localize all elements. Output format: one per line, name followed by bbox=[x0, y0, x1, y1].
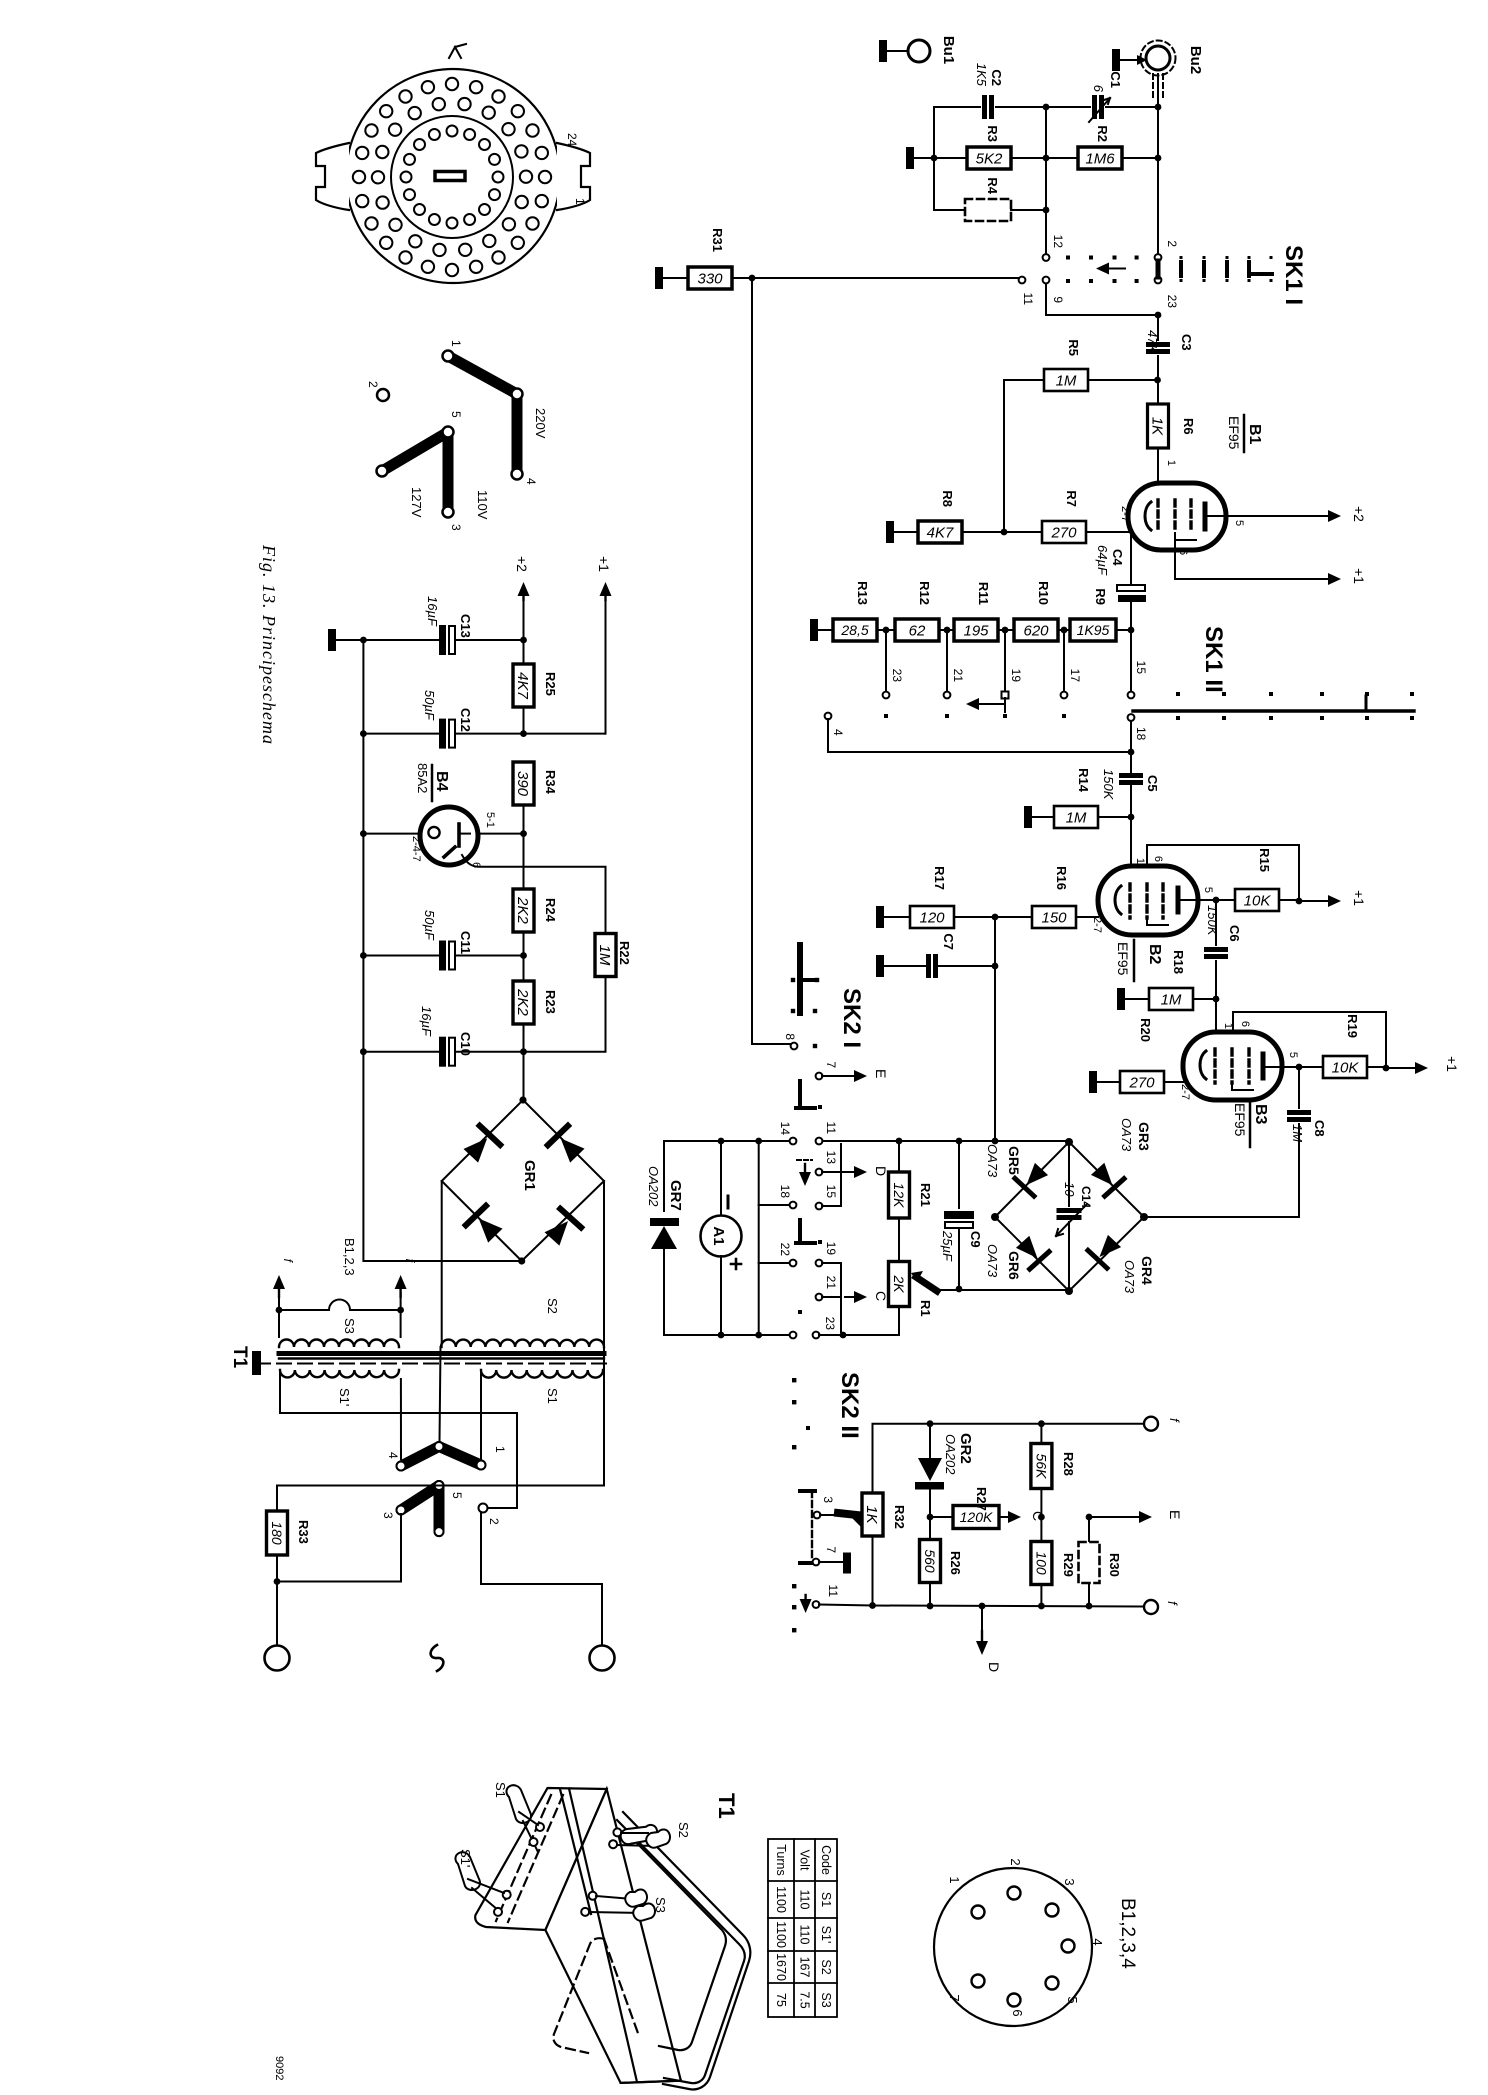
svg-text:7.5: 7.5 bbox=[798, 1991, 812, 2008]
svg-text:C3: C3 bbox=[1179, 334, 1194, 351]
svg-text:23: 23 bbox=[890, 669, 904, 683]
svg-text:D: D bbox=[873, 1166, 889, 1176]
GR1 diode lower-left bbox=[466, 1206, 506, 1246]
svg-text:4K7: 4K7 bbox=[514, 672, 531, 699]
svg-text:127V: 127V bbox=[409, 487, 424, 518]
GR1 diode upper-left bbox=[461, 1126, 501, 1166]
svg-text:GR6: GR6 bbox=[1006, 1251, 1022, 1280]
svg-text:S1: S1 bbox=[545, 1388, 560, 1404]
resistor R12 62 bbox=[895, 619, 939, 641]
resistor R13 28.5 bbox=[833, 619, 877, 641]
svg-text:+2: +2 bbox=[1351, 506, 1367, 522]
resistor R34 390 bbox=[513, 762, 534, 805]
diode GR2 OA202 bbox=[929, 1424, 931, 1458]
svg-text:11: 11 bbox=[824, 1122, 838, 1135]
capacitor C10 16uF bbox=[363, 956, 440, 1052]
svg-text:S1': S1' bbox=[337, 1388, 352, 1406]
svg-text:2-7: 2-7 bbox=[1179, 1084, 1191, 1100]
svg-text:1M: 1M bbox=[1056, 372, 1077, 389]
svg-text:1K95: 1K95 bbox=[1077, 622, 1110, 638]
svg-text:5: 5 bbox=[1287, 1052, 1299, 1058]
svg-text:B3: B3 bbox=[1252, 1104, 1269, 1125]
winding data table bbox=[768, 1839, 837, 2017]
svg-text:6: 6 bbox=[1177, 549, 1189, 555]
SK2I pin 7 arrow E bbox=[816, 1073, 823, 1080]
svg-text:4: 4 bbox=[386, 1452, 400, 1459]
svg-text:GR7: GR7 bbox=[667, 1180, 684, 1211]
svg-text:EF95: EF95 bbox=[1232, 1103, 1248, 1137]
svg-text:OA202: OA202 bbox=[646, 1166, 661, 1207]
svg-text:S1: S1 bbox=[493, 1782, 508, 1798]
svg-text:C5: C5 bbox=[1145, 775, 1160, 792]
link 5-127V/110V bbox=[382, 432, 448, 471]
svg-text:B1,2,3: B1,2,3 bbox=[342, 1238, 357, 1276]
T1 lead S2 bbox=[609, 1821, 670, 1848]
svg-text:195: 195 bbox=[963, 622, 989, 639]
svg-text:GR3: GR3 bbox=[1136, 1122, 1152, 1151]
svg-text:19: 19 bbox=[1009, 669, 1023, 683]
wire Bu2 to SK1I pin 2 (dashed sleeve) bbox=[1152, 74, 1154, 100]
SK2I pins 14 / 11 bbox=[755, 1138, 762, 1145]
arrow C bbox=[999, 1516, 1003, 1518]
svg-text:C14: C14 bbox=[1079, 1186, 1093, 1208]
svg-text:1M6: 1M6 bbox=[1085, 150, 1115, 167]
svg-text:120: 120 bbox=[919, 909, 945, 926]
svg-text:SK1 II: SK1 II bbox=[1200, 626, 1227, 693]
svg-text:S2: S2 bbox=[819, 1959, 833, 1974]
svg-text:R27: R27 bbox=[974, 1487, 989, 1511]
mains terminal left bbox=[265, 1646, 290, 1671]
svg-text:R30: R30 bbox=[1107, 1553, 1122, 1577]
resistor R4 (dashed) bbox=[933, 107, 935, 210]
svg-text:C: C bbox=[873, 1291, 889, 1301]
svg-text:1K: 1K bbox=[1149, 417, 1166, 436]
svg-text:EF95: EF95 bbox=[1226, 416, 1242, 450]
svg-text:1: 1 bbox=[947, 1876, 962, 1883]
wire S2 left to GR1 left vertex bbox=[441, 1181, 443, 1347]
socket Bu1 bbox=[879, 40, 887, 62]
mains terminal right bbox=[590, 1646, 615, 1671]
svg-text:R18: R18 bbox=[1171, 950, 1186, 974]
heater supply arrows f f (B1,2,3) bbox=[278, 1286, 280, 1297]
svg-text:10K: 10K bbox=[1332, 1059, 1360, 1076]
svg-text:R9: R9 bbox=[1093, 588, 1108, 605]
anode wire pin5 bbox=[1266, 1066, 1323, 1068]
svg-text:E: E bbox=[873, 1069, 889, 1078]
svg-text:390: 390 bbox=[514, 771, 531, 797]
svg-text:S3: S3 bbox=[653, 1897, 668, 1913]
svg-text:5: 5 bbox=[1202, 887, 1214, 893]
resistor R21 12K bbox=[898, 1141, 900, 1172]
svg-text:C13: C13 bbox=[458, 614, 473, 638]
svg-text:150K: 150K bbox=[1101, 769, 1116, 801]
svg-text:28,5: 28,5 bbox=[840, 622, 868, 638]
svg-text:R29: R29 bbox=[1061, 1553, 1076, 1577]
svg-text:Turns: Turns bbox=[774, 1844, 788, 1876]
svg-text:11: 11 bbox=[826, 1585, 840, 1598]
capacitor C2 1K5 bbox=[934, 106, 980, 108]
resistor R11 195 bbox=[954, 619, 998, 641]
diode GR4 OA73 bbox=[1088, 1232, 1124, 1268]
svg-text:1M: 1M bbox=[1290, 1124, 1305, 1142]
resistor R24 2K2 bbox=[523, 834, 525, 889]
svg-text:56K: 56K bbox=[1033, 1454, 1049, 1480]
svg-text:SK1 I: SK1 I bbox=[1280, 245, 1307, 305]
SK2I pin 23 bottom row bbox=[744, 1334, 790, 1336]
svg-text:T1: T1 bbox=[229, 1346, 250, 1369]
resistor R29 100 bbox=[1040, 1517, 1042, 1542]
svg-text:1: 1 bbox=[1165, 460, 1177, 466]
svg-text:1: 1 bbox=[493, 1446, 507, 1453]
SK1 II wiper arrow at pin 19 bbox=[1004, 698, 1006, 712]
svg-text:150: 150 bbox=[1041, 909, 1067, 926]
svg-text:1100: 1100 bbox=[774, 1921, 788, 1948]
svg-text:C7: C7 bbox=[941, 933, 956, 950]
resistor R15 10K bbox=[1235, 889, 1279, 911]
socket Bu2 bbox=[1112, 49, 1120, 71]
svg-text:110V: 110V bbox=[475, 490, 490, 520]
capacitor C9 25uF bbox=[958, 1141, 960, 1208]
svg-text:2K: 2K bbox=[891, 1274, 907, 1293]
SK1I contact dots bbox=[1066, 256, 1070, 260]
tube B2 EF95 bbox=[1098, 866, 1198, 935]
svg-text:6: 6 bbox=[1239, 1021, 1251, 1027]
SK2I pin 18 bbox=[759, 1141, 790, 1205]
wire wiper/C9 to bridge bottom bbox=[959, 1289, 1069, 1291]
svg-text:150K: 150K bbox=[1205, 905, 1220, 937]
svg-text:5: 5 bbox=[449, 411, 463, 418]
SK2I wiper bar bbox=[797, 945, 803, 1013]
svg-text:C2: C2 bbox=[989, 69, 1004, 86]
svg-text:6: 6 bbox=[1091, 85, 1106, 93]
svg-text:13: 13 bbox=[824, 1151, 838, 1165]
svg-text:6: 6 bbox=[1010, 2009, 1025, 2016]
svg-text:GR2: GR2 bbox=[957, 1433, 974, 1464]
potentiometer R32 1K bbox=[862, 1493, 883, 1536]
SK2I pin 21 arrow C bbox=[816, 1294, 823, 1301]
wire with bump between f arrows bbox=[279, 1300, 401, 1310]
svg-text:Bu2: Bu2 bbox=[1187, 46, 1204, 74]
svg-text:7: 7 bbox=[824, 1546, 838, 1553]
svg-text:S3: S3 bbox=[342, 1318, 357, 1334]
svg-text:4: 4 bbox=[1090, 1938, 1105, 1945]
capacitor C5 150K bbox=[1122, 773, 1141, 778]
svg-text:R11: R11 bbox=[976, 582, 991, 605]
resistor R14 1M bbox=[1024, 806, 1032, 828]
svg-text:OA73: OA73 bbox=[1119, 1118, 1134, 1152]
svg-text:1K: 1K bbox=[863, 1505, 880, 1524]
capacitor C8 1M bbox=[1298, 1067, 1300, 1108]
wire S1' right end to selector pin 4 bbox=[400, 1379, 402, 1459]
SK2I pin 15 bbox=[816, 1203, 823, 1210]
tube B1 EF95 bbox=[1128, 483, 1226, 550]
svg-text:OA73: OA73 bbox=[985, 1144, 1000, 1178]
svg-text:1M: 1M bbox=[596, 945, 613, 966]
svg-text:R25: R25 bbox=[543, 672, 558, 696]
anode wire pin5 to +2 bbox=[1208, 515, 1327, 517]
diode GR5 OA73 bbox=[1015, 1160, 1051, 1196]
svg-text:21: 21 bbox=[951, 669, 965, 683]
svg-text:R3: R3 bbox=[985, 125, 1000, 142]
mains voltage selector links 220V/127V/110V bbox=[366, 340, 548, 531]
capacitor C3 47K bbox=[1157, 315, 1159, 340]
svg-text:C6: C6 bbox=[1227, 925, 1242, 942]
svg-text:GR1: GR1 bbox=[521, 1160, 538, 1191]
svg-text:15: 15 bbox=[824, 1185, 838, 1199]
svg-text:24: 24 bbox=[565, 133, 579, 147]
resistor R18 1M bbox=[1117, 988, 1125, 1010]
arrow E bbox=[1089, 1516, 1128, 1518]
svg-text:1K5: 1K5 bbox=[974, 63, 989, 87]
svg-text:2: 2 bbox=[366, 381, 380, 388]
svg-text:R23: R23 bbox=[543, 990, 558, 1014]
svg-text:167: 167 bbox=[798, 1957, 812, 1978]
selector pin 2 bbox=[479, 1504, 488, 1513]
svg-text:16µF: 16µF bbox=[425, 596, 440, 627]
svg-text:47K: 47K bbox=[1145, 330, 1160, 354]
selector link 5-3 bbox=[401, 1486, 439, 1511]
capacitor C11 50uF bbox=[363, 834, 440, 956]
svg-text:21: 21 bbox=[824, 1276, 838, 1290]
column dashes between 18 and 22 bbox=[798, 1220, 802, 1240]
feedback wire pin6 over R19 bbox=[1233, 1012, 1386, 1067]
svg-text:GR4: GR4 bbox=[1139, 1256, 1155, 1285]
svg-text:110: 110 bbox=[798, 1925, 812, 1945]
svg-text:180: 180 bbox=[269, 1521, 285, 1545]
svg-text:R7: R7 bbox=[1064, 490, 1079, 507]
svg-text:19: 19 bbox=[824, 1242, 838, 1256]
resistor R3 5K2 bbox=[906, 147, 914, 169]
chain tap wires to SK1 II contacts bbox=[885, 630, 887, 691]
SK2 II pin 11 bbox=[813, 1601, 820, 1608]
resistor R27 120K bbox=[930, 1516, 953, 1518]
svg-text:10: 10 bbox=[1062, 1182, 1077, 1197]
wire B4 pin6 to R22 bbox=[462, 855, 606, 933]
svg-text:17: 17 bbox=[1068, 669, 1082, 683]
svg-text:+1: +1 bbox=[1444, 1056, 1460, 1072]
SK1I moving link 2-23 bbox=[1156, 261, 1161, 277]
tube B4 85A2 bbox=[363, 734, 421, 834]
wire selector common line bbox=[277, 1485, 604, 1487]
svg-text:C10: C10 bbox=[458, 1032, 473, 1056]
capacitor C7 bbox=[876, 955, 884, 977]
svg-text:R5: R5 bbox=[1066, 339, 1081, 356]
svg-text:R2: R2 bbox=[1095, 125, 1110, 142]
svg-text:Fig. 13. Principeschema: Fig. 13. Principeschema bbox=[259, 544, 279, 745]
SK2I pin 22 bbox=[759, 1205, 790, 1263]
GR1 diode lower-right bbox=[542, 1209, 582, 1249]
AC symbol bbox=[431, 1645, 444, 1671]
terminal f (top) bbox=[1144, 1417, 1158, 1431]
svg-text:R32: R32 bbox=[892, 1505, 907, 1529]
svg-text:A1: A1 bbox=[710, 1226, 727, 1245]
bottom line to f terminal bbox=[819, 1605, 873, 1606]
selector link 4-1 bbox=[401, 1447, 439, 1467]
SK2 II contact dot column bbox=[792, 1378, 796, 1382]
tube socket pinout B1,2,3,4 bbox=[934, 1868, 1092, 2026]
svg-text:B1: B1 bbox=[1246, 424, 1263, 445]
svg-text:1M: 1M bbox=[1161, 991, 1182, 1008]
svg-text:+2: +2 bbox=[514, 556, 530, 572]
anode wire pin5 bbox=[1181, 899, 1234, 901]
svg-text:18: 18 bbox=[778, 1185, 792, 1199]
resistor R31 330 bbox=[655, 267, 663, 289]
resistor R17 120 bbox=[876, 906, 884, 928]
svg-text:10K: 10K bbox=[1244, 892, 1272, 909]
svg-text:R34: R34 bbox=[543, 770, 558, 795]
svg-text:R15: R15 bbox=[1257, 848, 1272, 872]
svg-text:R16: R16 bbox=[1054, 866, 1069, 890]
svg-text:2-4-7: 2-4-7 bbox=[410, 836, 422, 862]
SK2I pin 13 arrow D bbox=[816, 1169, 823, 1176]
svg-text:E: E bbox=[1167, 1510, 1183, 1519]
wire S1' to selector pin 2 bbox=[280, 1370, 517, 1508]
svg-text:D: D bbox=[986, 1662, 1002, 1672]
GR1 diode upper-right bbox=[548, 1126, 588, 1166]
wire meter loop bottom bbox=[664, 1334, 759, 1336]
rotary wafer disc SK1 front view bbox=[316, 44, 590, 283]
SK1 II pins 15/18 bbox=[1130, 630, 1132, 691]
svg-text:9092: 9092 bbox=[273, 2056, 285, 2080]
R1 wiper arrow bbox=[916, 1277, 937, 1291]
wire B4 anode to R34/R24 node bbox=[478, 833, 524, 835]
svg-text:R22: R22 bbox=[617, 941, 632, 965]
svg-text:R8: R8 bbox=[940, 490, 955, 507]
svg-text:R19: R19 bbox=[1345, 1014, 1360, 1038]
svg-text:C11: C11 bbox=[458, 931, 473, 954]
svg-text:R6: R6 bbox=[1181, 418, 1196, 435]
svg-text:15: 15 bbox=[1134, 661, 1148, 675]
svg-text:2: 2 bbox=[1165, 240, 1179, 247]
svg-text:560: 560 bbox=[922, 1549, 938, 1573]
wire S1 to selector pin 1 bbox=[480, 1370, 482, 1459]
grid2 wire pin6 to +1 bbox=[1175, 540, 1327, 579]
svg-text:50µF: 50µF bbox=[422, 910, 437, 941]
svg-text:1100: 1100 bbox=[774, 1886, 788, 1913]
svg-text:S2: S2 bbox=[676, 1822, 691, 1838]
svg-text:5: 5 bbox=[1233, 520, 1245, 526]
capacitor C13 16uF bbox=[439, 625, 446, 655]
resistor R25 4K7 bbox=[513, 664, 534, 707]
svg-text:3: 3 bbox=[821, 1496, 835, 1503]
SK1I wiper arrow bbox=[1106, 268, 1125, 270]
resistor R23 2K2 bbox=[513, 981, 534, 1024]
SK2I pin 19 bbox=[816, 1260, 823, 1267]
svg-text:23: 23 bbox=[823, 1317, 837, 1331]
svg-text:4: 4 bbox=[524, 478, 538, 485]
svg-text:2-7: 2-7 bbox=[1119, 506, 1131, 522]
svg-text:S3: S3 bbox=[819, 1992, 833, 2007]
wire R16/C7 node down to SK2I bus bbox=[994, 917, 996, 1141]
svg-text:64µF: 64µF bbox=[1095, 545, 1110, 576]
SK2 II wiper arrow bbox=[804, 1595, 806, 1602]
svg-text:5: 5 bbox=[450, 1492, 464, 1499]
svg-text:B1,2,3,4: B1,2,3,4 bbox=[1117, 1898, 1138, 1969]
svg-text:R1: R1 bbox=[918, 1300, 933, 1317]
bridge rectifier GR1 bbox=[523, 1052, 525, 1100]
diode GR3 OA73 bbox=[1088, 1160, 1124, 1196]
svg-text:1M: 1M bbox=[1066, 809, 1087, 826]
winding S1p bbox=[280, 1370, 399, 1377]
svg-text:Volt: Volt bbox=[798, 1850, 812, 1871]
svg-text:OA73: OA73 bbox=[985, 1244, 1000, 1278]
svg-text:3: 3 bbox=[381, 1512, 395, 1519]
wire pin9 to C3 node bbox=[1046, 284, 1155, 315]
svg-text:5: 5 bbox=[1065, 1996, 1080, 2003]
svg-text:R31: R31 bbox=[710, 228, 725, 252]
svg-text:R21: R21 bbox=[918, 1183, 933, 1207]
resistor R6 1K bbox=[1157, 380, 1159, 404]
svg-text:R4: R4 bbox=[985, 177, 1000, 194]
transformer T1 pictorial (isometric) bbox=[475, 1788, 750, 2089]
svg-text:2: 2 bbox=[1008, 1858, 1023, 1865]
svg-text:2: 2 bbox=[487, 1518, 501, 1525]
svg-text:23: 23 bbox=[1165, 295, 1179, 309]
SK2 II pin 7 to ground bbox=[813, 1559, 820, 1566]
SK1I dash-dot row right bbox=[1180, 256, 1183, 259]
svg-text:5K2: 5K2 bbox=[976, 150, 1003, 167]
svg-text:+1: +1 bbox=[1351, 568, 1367, 584]
resistor R26 560 bbox=[920, 1540, 941, 1583]
svg-text:C4: C4 bbox=[1110, 549, 1125, 566]
svg-text:3: 3 bbox=[1062, 1878, 1077, 1885]
SK1 II contact dots bbox=[884, 714, 888, 718]
svg-text:75: 75 bbox=[774, 1993, 788, 2007]
SK2 II contact bar top bbox=[800, 1489, 815, 1493]
SK2I wiper arrow (down) bbox=[797, 1159, 812, 1161]
svg-text:5-1: 5-1 bbox=[484, 812, 496, 828]
svg-text:+1: +1 bbox=[596, 556, 612, 572]
svg-text:+1: +1 bbox=[1351, 890, 1367, 906]
terminal f (bottom) bbox=[1144, 1600, 1158, 1614]
left rail down to bridge bottom bbox=[363, 1052, 521, 1261]
svg-text:R13: R13 bbox=[855, 581, 870, 605]
resistor R9 1K95 bbox=[1070, 619, 1116, 641]
svg-text:GR5: GR5 bbox=[1006, 1146, 1022, 1175]
svg-text:7: 7 bbox=[947, 1994, 962, 2001]
resistor R7 270 bbox=[1042, 521, 1086, 543]
wire SK2I pin11 bus bbox=[822, 1140, 1069, 1142]
svg-text:R33: R33 bbox=[296, 1520, 311, 1544]
resistor R33 180 bbox=[276, 1486, 278, 1512]
svg-text:C9: C9 bbox=[968, 1231, 983, 1248]
svg-text:1: 1 bbox=[573, 198, 587, 205]
svg-text:R12: R12 bbox=[917, 581, 932, 605]
resistor R10 620 bbox=[1014, 619, 1058, 641]
resistor R20 270 bbox=[1089, 1071, 1097, 1093]
resistor R22 1M bbox=[595, 934, 616, 977]
T1 lead S1 bbox=[506, 1785, 544, 1852]
svg-text:2K2: 2K2 bbox=[514, 896, 531, 924]
svg-text:9: 9 bbox=[1051, 296, 1065, 303]
meter A1 bbox=[720, 1141, 722, 1215]
svg-text:18: 18 bbox=[1134, 727, 1148, 741]
svg-text:B2: B2 bbox=[1146, 944, 1163, 965]
svg-text:100: 100 bbox=[1033, 1551, 1049, 1575]
svg-text:S1': S1' bbox=[819, 1926, 833, 1944]
winding S1 bbox=[481, 1370, 603, 1378]
transformer core T1 bbox=[279, 1351, 604, 1356]
tube B3 EF95 bbox=[1183, 1032, 1282, 1100]
svg-text:B4: B4 bbox=[433, 771, 450, 792]
potentiometer R1 2K bbox=[898, 1218, 900, 1262]
wire node to SK1I pin 12 bbox=[1045, 107, 1047, 253]
svg-text:R20: R20 bbox=[1138, 1018, 1153, 1042]
ring bridge outline bbox=[995, 1142, 1144, 1291]
svg-text:620: 620 bbox=[1023, 622, 1049, 639]
svg-text:1670: 1670 bbox=[774, 1953, 788, 1981]
svg-text:2-7: 2-7 bbox=[1091, 917, 1103, 933]
